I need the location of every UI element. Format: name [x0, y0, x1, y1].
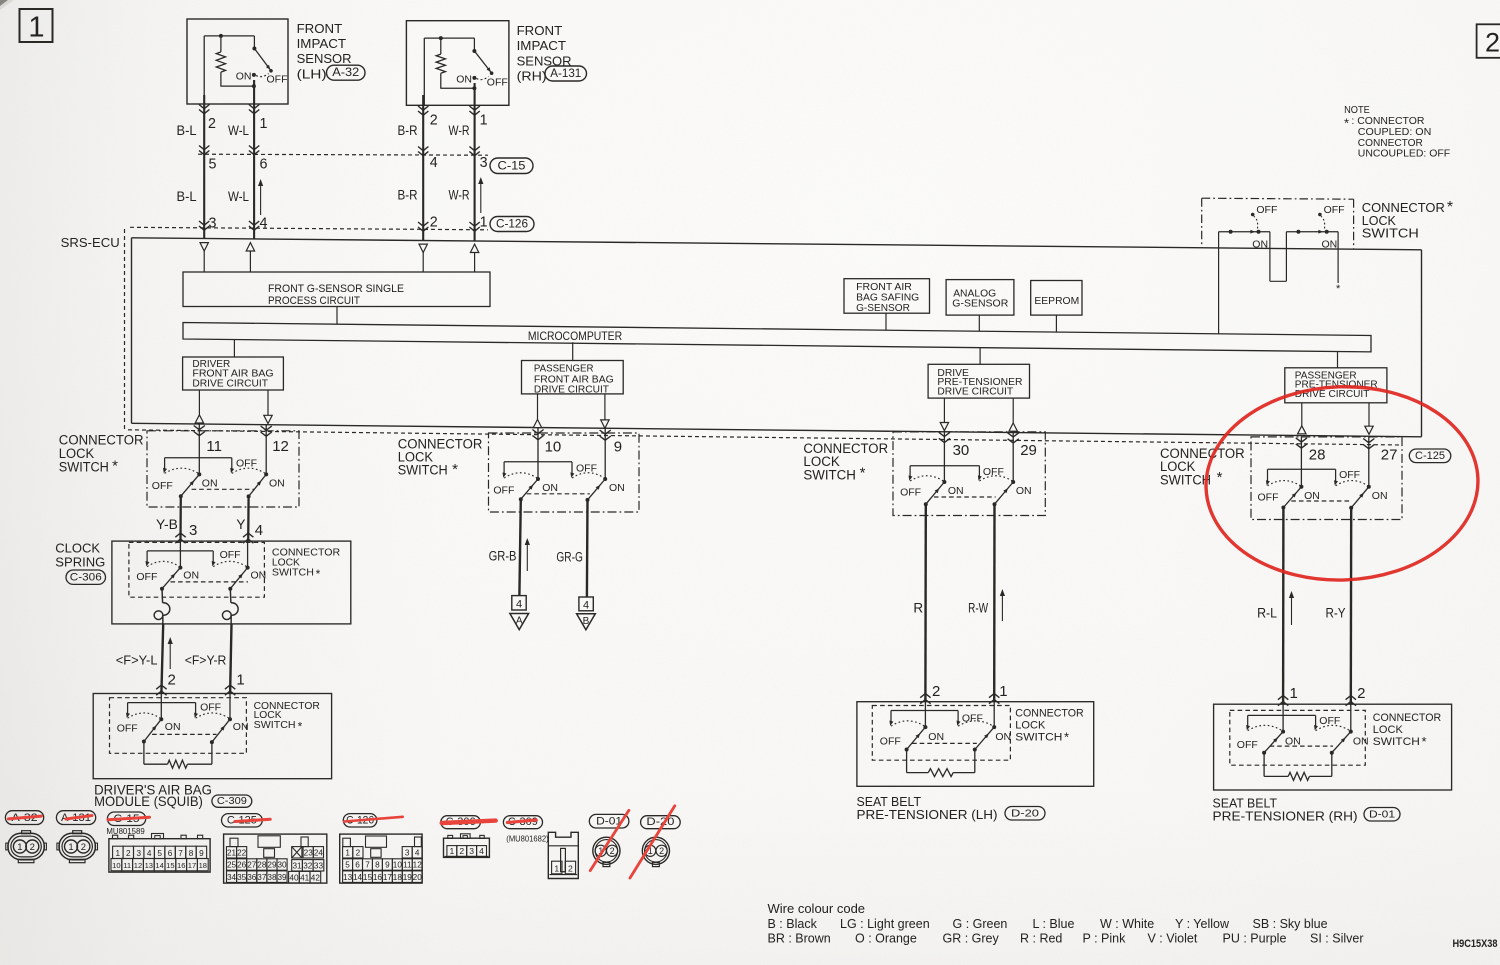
- squib connector lock switch label: [254, 701, 320, 733]
- svg-text:C-306: C-306: [70, 572, 102, 584]
- signal direction arrow GR-B: [525, 538, 530, 571]
- svg-text:C-309: C-309: [217, 795, 247, 807]
- svg-text:37: 37: [257, 873, 267, 882]
- svg-text:MODULE (SQUIB): MODULE (SQUIB): [94, 794, 203, 809]
- svg-text:13: 13: [145, 861, 153, 870]
- svg-text:OFF: OFF: [152, 480, 173, 492]
- connector drawing A-32: [6, 831, 47, 863]
- svg-text:14: 14: [353, 873, 363, 882]
- squib pin numbers 2 1: [168, 672, 245, 689]
- clock spring label: [55, 540, 105, 569]
- svg-text:1: 1: [554, 863, 559, 873]
- red strike C-126: [344, 817, 403, 822]
- pin 12 wire entry: [261, 424, 272, 475]
- U link between top-right switches: [1270, 232, 1287, 282]
- svg-text:B-L: B-L: [177, 188, 197, 204]
- connector lock switch label pins 30-29: [803, 441, 888, 483]
- svg-text:2: 2: [30, 842, 35, 853]
- sensor RH switch: [456, 38, 508, 88]
- connector lock switch label pins 28-27: [1160, 446, 1245, 487]
- drawing number H9C15X38: [1453, 938, 1498, 950]
- svg-text:25: 25: [227, 861, 237, 870]
- seat belt LH connector lock switch label: [1015, 707, 1084, 744]
- svg-text:1: 1: [28, 12, 44, 44]
- svg-text:GR-B: GR-B: [489, 548, 517, 563]
- svg-text:3: 3: [469, 846, 474, 856]
- svg-text:5: 5: [157, 849, 162, 858]
- wire microcomputer to drive pre-tensioner circuit: [979, 347, 981, 364]
- driver air bag module box: [93, 694, 331, 779]
- passenger pre-tensioner output pin28: [1298, 403, 1306, 434]
- note text: [1344, 105, 1450, 160]
- svg-text:: CONNECTOR: : CONNECTOR: [1351, 116, 1424, 127]
- svg-text:14: 14: [155, 861, 163, 870]
- seat belt pre-tensioner RH box: [1214, 704, 1452, 790]
- svg-text:OFF: OFF: [576, 462, 597, 474]
- svg-text:SWITCH: SWITCH: [1362, 226, 1419, 240]
- svg-text:9: 9: [614, 439, 622, 456]
- svg-text:31: 31: [292, 861, 302, 870]
- sensor LH resistor: [216, 52, 225, 72]
- signal direction arrow R-W: [1000, 589, 1005, 621]
- svg-text:7: 7: [178, 849, 183, 858]
- svg-text:28: 28: [1309, 446, 1326, 463]
- svg-text:OFF: OFF: [962, 712, 983, 724]
- connector lock switch label pins 10-9: [398, 436, 483, 478]
- wire F-Y-L clock spring to squib: [156, 624, 166, 695]
- svg-text:27: 27: [1381, 446, 1398, 463]
- svg-text:GR-G: GR-G: [556, 550, 583, 565]
- red strike C-15: [108, 817, 150, 820]
- svg-text:29: 29: [1020, 442, 1037, 459]
- svg-text:ON: ON: [948, 485, 964, 497]
- svg-text:13: 13: [343, 873, 353, 882]
- svg-text:15: 15: [166, 861, 174, 870]
- connector label C-15: [490, 158, 533, 174]
- wire Y-B to clock spring: [175, 496, 185, 543]
- top-right switch 1: [1219, 204, 1278, 251]
- svg-text:*: *: [452, 461, 458, 478]
- svg-text:OFF: OFF: [900, 486, 921, 498]
- front impact sensor RH A-131 box: [406, 21, 509, 106]
- sensor LH label: [297, 21, 352, 82]
- squib resistor: [144, 742, 212, 769]
- svg-text:Wire colour code: Wire colour code: [768, 901, 866, 916]
- svg-text:6: 6: [355, 861, 360, 870]
- part number MU801589: [106, 827, 145, 836]
- svg-text:2: 2: [659, 846, 664, 856]
- svg-text:PROCESS CIRCUIT: PROCESS CIRCUIT: [268, 295, 360, 307]
- svg-text:2: 2: [430, 215, 438, 231]
- svg-text:CONNECTOR: CONNECTOR: [1373, 712, 1442, 724]
- svg-text:FRONT AIR: FRONT AIR: [856, 282, 912, 293]
- svg-text:DRIVE CIRCUIT: DRIVE CIRCUIT: [534, 384, 609, 395]
- svg-text:DRIVE CIRCUIT: DRIVE CIRCUIT: [192, 378, 268, 389]
- svg-text:G-SENSOR: G-SENSOR: [856, 303, 910, 314]
- svg-text:SWITCH: SWITCH: [254, 720, 296, 731]
- svg-text:R-Y: R-Y: [1326, 605, 1346, 620]
- svg-text:18: 18: [199, 861, 207, 870]
- svg-text:EEPROM: EEPROM: [1034, 296, 1079, 307]
- seat belt RH connector lock switch label: [1373, 712, 1442, 749]
- svg-text:18: 18: [393, 873, 403, 882]
- svg-text:G : Green: G : Green: [953, 917, 1008, 931]
- svg-text:ON: ON: [1016, 485, 1032, 497]
- connector drawing D-01: [593, 837, 620, 866]
- ground reference A: [510, 596, 529, 630]
- svg-text:34: 34: [227, 873, 237, 882]
- front impact sensor LH A-32 box: [187, 19, 288, 104]
- pin numbers 28 27: [1309, 446, 1398, 463]
- svg-text:SWITCH: SWITCH: [59, 459, 109, 474]
- connector C-125 long dashed boundary: [128, 430, 1402, 445]
- svg-text:R: R: [913, 601, 923, 616]
- connector label C-306: [66, 570, 106, 584]
- svg-text:17: 17: [188, 861, 196, 870]
- svg-text:OFF: OFF: [136, 571, 157, 583]
- svg-text:*: *: [860, 464, 866, 481]
- squib inner dashed box: [110, 698, 247, 754]
- svg-text:B-L: B-L: [177, 122, 197, 138]
- svg-text:*: *: [1064, 729, 1069, 744]
- signal direction arrow W-L: [258, 179, 263, 215]
- svg-text:3: 3: [189, 522, 197, 539]
- svg-text:D-20: D-20: [1011, 807, 1039, 819]
- svg-text:ON: ON: [1372, 490, 1388, 502]
- svg-text:10: 10: [545, 439, 562, 456]
- svg-text:29: 29: [267, 861, 277, 870]
- connector ref C-309 bottom: [503, 816, 542, 829]
- svg-text:11: 11: [123, 861, 131, 870]
- svg-text:22: 22: [237, 848, 247, 857]
- svg-text:(MU801682): (MU801682): [506, 835, 549, 844]
- svg-text:*: *: [298, 719, 303, 733]
- svg-text:OFF: OFF: [493, 485, 514, 497]
- driver front air bag drive circuit box: [183, 357, 284, 390]
- svg-text:*: *: [1421, 734, 1426, 749]
- connector lock switch pins 11-12: [152, 458, 285, 499]
- svg-text:W-L: W-L: [228, 188, 249, 204]
- signal direction arrow W-R: [478, 177, 483, 213]
- seat belt LH connector lock switch pair: [880, 702, 1011, 752]
- drive pre-tensioner output pin30: [940, 398, 948, 431]
- svg-text:ON: ON: [202, 477, 218, 489]
- svg-text:10: 10: [112, 861, 120, 870]
- wire analog g-sensor to microcomputer: [978, 315, 980, 331]
- wire labels GR-B GR-G: [489, 548, 583, 564]
- pin numbers at sensors: [208, 113, 488, 133]
- chain box pins 28-27: [1251, 437, 1402, 520]
- svg-text:W-R: W-R: [449, 122, 470, 138]
- svg-text:DRIVE CIRCUIT: DRIVE CIRCUIT: [937, 386, 1013, 397]
- ECU input node pin3 triangle: [200, 243, 208, 272]
- clock spring coil right: [222, 589, 238, 625]
- ECU input node pin4 triangle: [246, 243, 254, 272]
- driver air bag module label: [94, 782, 212, 809]
- svg-text:1: 1: [260, 116, 268, 132]
- wire labels B-L W-L upper: [177, 122, 250, 138]
- svg-text:1: 1: [236, 672, 244, 689]
- svg-text:CONNECTOR: CONNECTOR: [1358, 138, 1423, 149]
- SRS-ECU box outline: [132, 238, 1422, 437]
- svg-text:SRS-ECU: SRS-ECU: [61, 236, 120, 250]
- svg-text:5: 5: [209, 157, 217, 173]
- connector ref A-131: [56, 811, 95, 825]
- svg-text:6: 6: [260, 157, 268, 173]
- svg-text:UNCOUPLED: OFF: UNCOUPLED: OFF: [1358, 149, 1450, 160]
- svg-text:ON: ON: [609, 482, 625, 494]
- wire GR-G to ground B: [586, 500, 589, 597]
- connector lock switch pins 10-9: [493, 462, 624, 502]
- ground reference B: [577, 597, 596, 630]
- wire R-W to seat belt LH pin1: [989, 504, 999, 704]
- svg-text:8: 8: [189, 849, 194, 858]
- svg-text:OFF: OFF: [236, 458, 257, 470]
- svg-text:LOCK: LOCK: [1373, 724, 1403, 736]
- part number MU801682: [506, 835, 549, 844]
- svg-text:Y: Y: [236, 517, 245, 532]
- svg-text:42: 42: [311, 873, 321, 882]
- svg-text:ON: ON: [269, 477, 285, 489]
- svg-text:32: 32: [303, 861, 313, 870]
- connector ref C-126 bottom: [343, 814, 377, 827]
- svg-text:2: 2: [610, 846, 615, 856]
- svg-text:C-125: C-125: [1415, 450, 1445, 462]
- svg-text:2: 2: [1357, 685, 1365, 702]
- svg-text:12: 12: [134, 861, 142, 870]
- svg-text:4: 4: [516, 599, 522, 611]
- svg-text:39: 39: [277, 873, 287, 882]
- svg-text:OFF: OFF: [1319, 715, 1340, 727]
- svg-text:GR : Grey: GR : Grey: [943, 932, 1000, 946]
- svg-text:16: 16: [373, 873, 383, 882]
- wire W-L sensor LH pin1 to ECU pin4: [249, 80, 259, 239]
- svg-text:R : Red: R : Red: [1020, 932, 1062, 946]
- svg-text:3: 3: [209, 216, 217, 232]
- svg-text:2: 2: [568, 863, 573, 873]
- connector label C-309 squib: [212, 795, 252, 807]
- wire colour code title: [768, 901, 866, 916]
- svg-text:L : Blue: L : Blue: [1033, 917, 1075, 931]
- connector label A-131: [545, 66, 587, 81]
- svg-text:6: 6: [168, 849, 173, 858]
- svg-text:H9C15X38: H9C15X38: [1453, 938, 1498, 950]
- svg-text:V : Violet: V : Violet: [1148, 932, 1198, 946]
- svg-text:Y : Yellow: Y : Yellow: [1175, 917, 1230, 931]
- svg-text:<F>Y-L: <F>Y-L: [116, 653, 158, 668]
- svg-text:R-W: R-W: [968, 601, 988, 616]
- connector drawing D-20: [642, 837, 669, 866]
- pin numbers at C-126: [209, 215, 488, 232]
- pin 30 wire entry: [939, 431, 950, 482]
- svg-text:C-15: C-15: [498, 160, 526, 172]
- connector label C-126: [490, 217, 534, 232]
- analog G-sensor box: [946, 280, 1014, 316]
- red slash D-20: [630, 806, 675, 878]
- connector label A-32: [327, 65, 366, 80]
- clock spring coil left: [154, 589, 170, 625]
- svg-text:24: 24: [314, 848, 324, 857]
- svg-text:LG : Light green: LG : Light green: [840, 917, 930, 931]
- red strike C-309: [507, 820, 536, 823]
- pin 27 wire entry: [1363, 437, 1374, 487]
- svg-text:26: 26: [237, 861, 247, 870]
- svg-text:SENSOR: SENSOR: [297, 51, 352, 66]
- svg-text:27: 27: [247, 861, 257, 870]
- wire labels R-L R-Y: [1257, 605, 1345, 620]
- wire labels R R-W: [913, 601, 988, 616]
- seat belt LH squib resistor: [907, 750, 975, 777]
- wire R-Y to seat belt RH pin2: [1346, 508, 1356, 706]
- svg-text:SB : Sky blue: SB : Sky blue: [1253, 917, 1328, 931]
- svg-text:35: 35: [237, 873, 247, 882]
- svg-text:R-L: R-L: [1257, 605, 1277, 620]
- sensor RH label: [517, 23, 572, 84]
- svg-text:B-R: B-R: [398, 122, 418, 138]
- svg-text:2: 2: [356, 848, 361, 857]
- clock spring inner dashed box: [129, 542, 265, 597]
- microcomputer bar: [183, 323, 1371, 352]
- svg-text:3: 3: [136, 849, 141, 858]
- squib connector lock switch pair: [117, 694, 249, 745]
- passenger pre-tensioner drive circuit box: [1285, 368, 1387, 403]
- connector label C-125: [1409, 449, 1451, 463]
- svg-text:1: 1: [999, 683, 1007, 700]
- signal direction arrow F-Y-L: [168, 637, 173, 669]
- svg-text:2: 2: [81, 842, 86, 853]
- svg-text:PASSENGER: PASSENGER: [534, 364, 594, 375]
- svg-text:40: 40: [289, 873, 299, 882]
- red slash D-01: [590, 810, 629, 870]
- svg-text:ON: ON: [1353, 736, 1369, 748]
- svg-text:(LH): (LH): [297, 66, 327, 81]
- svg-text:ON: ON: [995, 731, 1011, 743]
- sensor LH switch: [236, 36, 288, 86]
- front G-sensor single process circuit box: [183, 272, 490, 307]
- connector ref C-306 bottom: [441, 816, 481, 829]
- wire safing g-sensor to microcomputer: [885, 313, 887, 330]
- connector C-126 dashed boundary: [130, 227, 488, 230]
- svg-text:1: 1: [449, 846, 454, 856]
- svg-text:CLOCK: CLOCK: [55, 540, 100, 555]
- svg-text:23: 23: [304, 848, 314, 857]
- svg-text:SWITCH: SWITCH: [1015, 732, 1062, 744]
- svg-text:(RH): (RH): [517, 69, 547, 84]
- svg-text:IMPACT: IMPACT: [517, 38, 567, 53]
- svg-text:4: 4: [260, 216, 268, 232]
- chain box pins 10-9: [489, 433, 640, 512]
- pin numbers 30 29: [953, 442, 1037, 459]
- connector drawing A-131: [57, 831, 98, 863]
- wire process circuit to microcomputer: [336, 307, 338, 325]
- svg-text:*: *: [1344, 115, 1349, 130]
- svg-text:*: *: [1217, 469, 1223, 486]
- svg-text:OFF: OFF: [200, 702, 221, 714]
- pin 11 wire entry: [194, 424, 205, 475]
- svg-text:38: 38: [267, 873, 277, 882]
- sensor RH resistor: [436, 54, 445, 73]
- svg-text:OFF: OFF: [983, 466, 1004, 478]
- svg-text:2: 2: [208, 116, 216, 132]
- svg-text:8: 8: [375, 861, 380, 870]
- svg-text:16: 16: [177, 861, 185, 870]
- clock spring connector lock switch label: [272, 548, 340, 581]
- seat belt pre-tensioner LH box: [857, 702, 1094, 787]
- pin 9 wire entry: [600, 428, 611, 479]
- connector ref A-32: [5, 811, 43, 825]
- svg-text:SWITCH: SWITCH: [803, 468, 856, 483]
- connector lock switch top-right chain box: [1202, 198, 1354, 248]
- connector ref C-15: [107, 812, 145, 826]
- seat belt RH inner dashed box: [1230, 710, 1366, 765]
- connector ref D-01: [589, 814, 629, 828]
- svg-text:C-126: C-126: [496, 218, 528, 230]
- svg-text:1: 1: [480, 113, 488, 129]
- svg-text:ON: ON: [456, 73, 472, 85]
- svg-text:2: 2: [126, 849, 131, 858]
- svg-text:PRE-TENSIONER (LH): PRE-TENSIONER (LH): [857, 807, 998, 822]
- svg-text:ON: ON: [236, 70, 252, 82]
- svg-text:CONNECTOR: CONNECTOR: [1015, 707, 1084, 719]
- wire top-right switch to microcomputer: [1218, 232, 1220, 334]
- svg-text:4: 4: [415, 848, 420, 857]
- svg-text:28: 28: [257, 861, 267, 870]
- sensor LH internal wiring: [204, 34, 256, 104]
- drive pre-tensioner output pin29: [1009, 398, 1017, 431]
- wire F-Y-R clock spring to squib: [225, 624, 235, 695]
- chain box pins 11-12: [147, 431, 299, 507]
- red circle annotation around passenger pre-tensioner: [1203, 382, 1482, 585]
- svg-text:15: 15: [363, 873, 373, 882]
- wire GR-B to ground A: [519, 499, 520, 595]
- svg-text:B: B: [583, 616, 590, 627]
- svg-text:*: *: [1336, 283, 1341, 295]
- connector drawing C-126: [340, 834, 423, 883]
- svg-text:21: 21: [227, 848, 237, 857]
- top-right switch ground stub with asterisk: [1336, 232, 1341, 295]
- svg-text:2: 2: [430, 113, 438, 129]
- svg-text:W-R: W-R: [449, 187, 470, 203]
- svg-text:5: 5: [345, 861, 350, 870]
- passenger drive circuit output pin9: [601, 394, 609, 428]
- svg-text:12: 12: [413, 861, 423, 870]
- svg-text:1: 1: [345, 848, 350, 857]
- svg-text:10: 10: [393, 861, 403, 870]
- ECU input node pin1 triangle: [470, 244, 478, 272]
- svg-text:30: 30: [953, 442, 970, 459]
- svg-text:7: 7: [365, 861, 370, 870]
- svg-text:FRONT G-SENSOR SINGLE: FRONT G-SENSOR SINGLE: [268, 283, 404, 295]
- driver drive circuit output pin11: [195, 390, 203, 423]
- clock spring connector lock switch pair: [136, 541, 266, 590]
- connector lock switch pins 30-29: [900, 466, 1032, 507]
- red strike C-306: [442, 821, 496, 823]
- wire R to seat belt LH pin2: [920, 504, 930, 704]
- signal direction arrow R-L: [1289, 591, 1294, 625]
- svg-text:1: 1: [17, 842, 22, 853]
- wire Y to clock spring: [243, 496, 253, 543]
- svg-text:SI : Silver: SI : Silver: [1310, 932, 1364, 946]
- wire labels B-L W-L lower: [177, 188, 250, 204]
- driver drive circuit output pin12: [264, 390, 272, 424]
- connector lock switch pins 28-27: [1258, 469, 1388, 510]
- seat belt RH squib resistor: [1264, 753, 1332, 781]
- svg-text:ON: ON: [165, 721, 181, 733]
- wire labels F-Y-L F-Y-R: [116, 653, 227, 668]
- svg-text:MICROCOMPUTER: MICROCOMPUTER: [528, 331, 622, 343]
- svg-text:A: A: [516, 616, 523, 627]
- svg-text:*: *: [112, 457, 118, 474]
